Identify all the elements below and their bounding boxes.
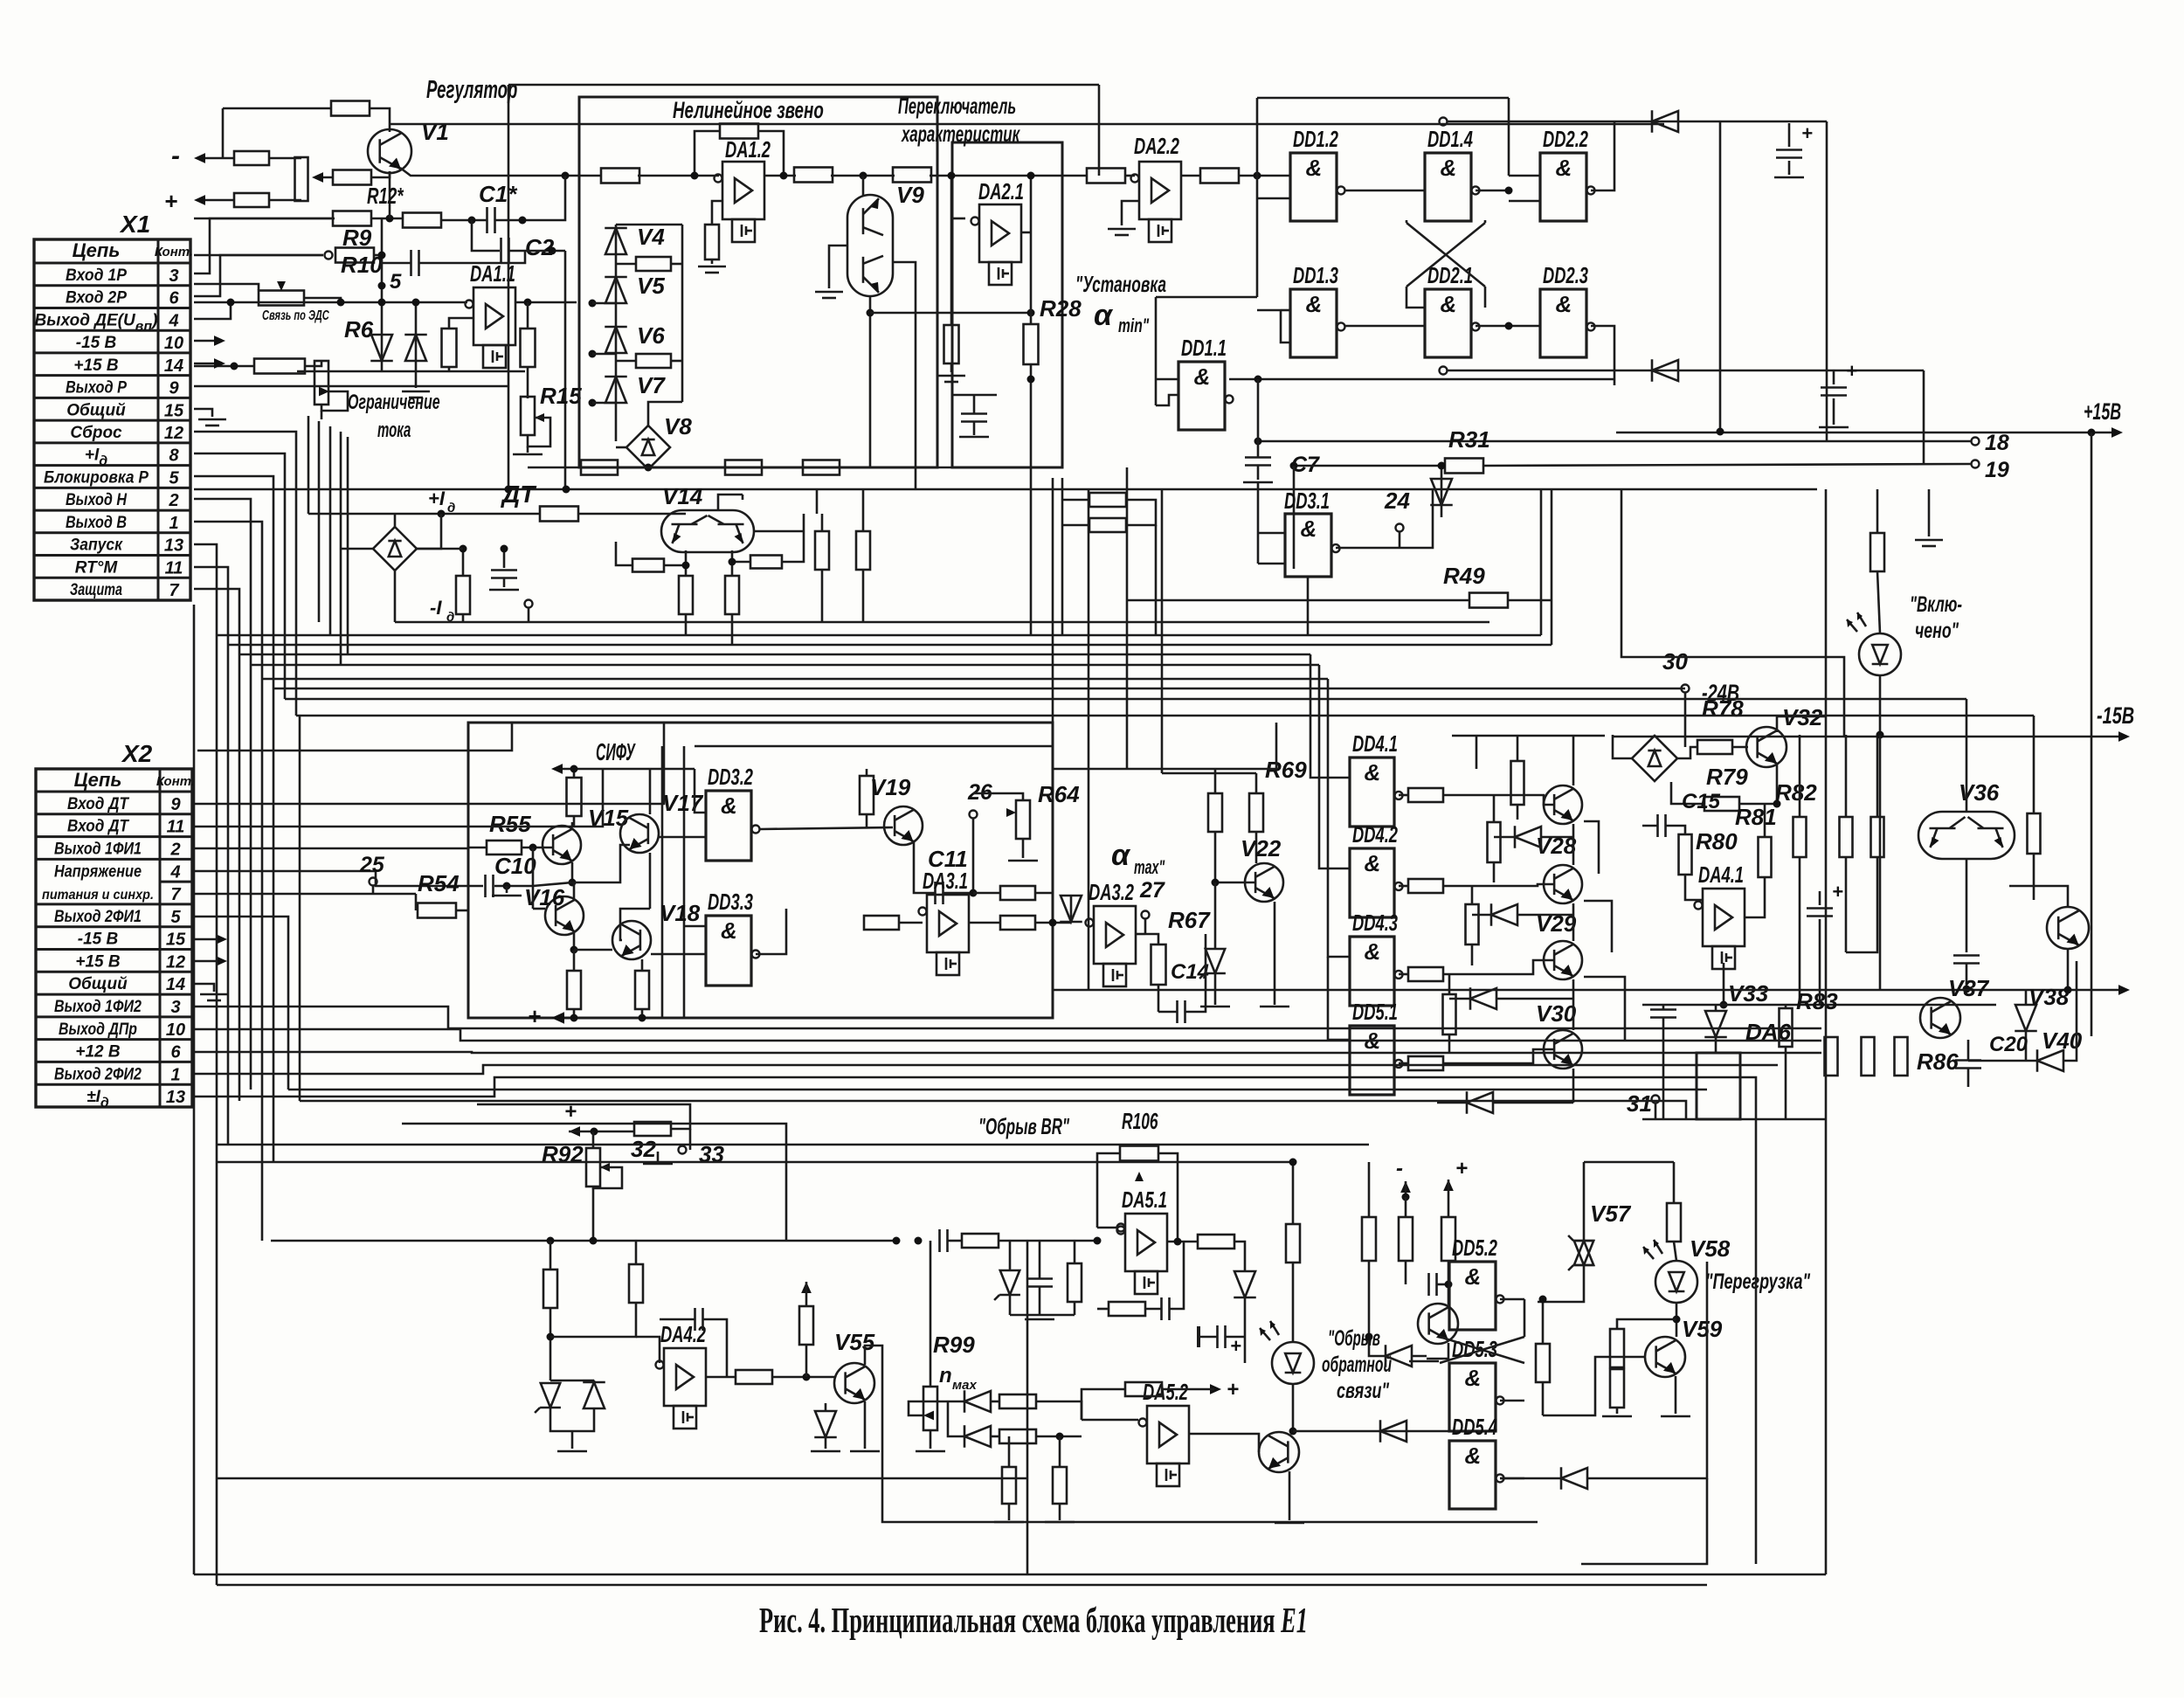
ground I10 [811,1450,840,1453]
capacitor DT [491,569,517,571]
wire g e2 [1584,901,1612,952]
wire mid to v17 [572,845,630,882]
svg-text:"Вклю-: "Вклю- [1910,592,1962,617]
arrow plus [194,195,205,205]
svg-text:5: 5 [170,908,181,927]
capacitor I21 [938,1229,941,1252]
wire v15 c [571,822,574,827]
wire vb5 [347,437,349,654]
wire i43b [1586,1262,1707,1478]
pin 19 [1972,460,1980,468]
arrow R6w [319,387,329,397]
resistor I2 [543,1270,557,1308]
svg-text:V5: V5 [637,273,665,299]
node C1 left [468,217,476,225]
diode V38 [2015,1005,2036,1031]
node y1420a [547,1237,555,1245]
wire v14 leg1b [685,614,688,635]
resistor I1 [634,1122,671,1136]
svg-text:Выход 1ФИ2: Выход 1ФИ2 [54,998,142,1016]
wire x1969 [1719,121,1722,432]
op-amp DA1.2 [722,162,764,219]
capacitor pol TR1 [1776,149,1802,151]
wire i5 [593,1380,596,1382]
arrow Ip [1443,1180,1454,1191]
resistor I14 [999,1429,1036,1443]
wire 30 stub [1684,693,1687,747]
wire dd13 in [1281,309,1290,312]
svg-text:&: & [1556,291,1572,317]
wire x1176 [1026,1241,1029,1574]
wire v55 c [865,1346,1538,1522]
wire gd2b [1517,914,1573,917]
svg-text:Х2: Х2 [121,740,153,767]
resistor G5 [1511,761,1524,805]
resistor DA11 in [442,329,457,367]
wire gd1b [1540,836,1573,839]
wire i29 [1292,1263,1295,1342]
gate DD4.3 [1350,937,1394,1006]
node C1 right [519,217,527,225]
svg-text:8: 8 [169,446,179,466]
wire dd12 out [1345,190,1425,192]
diode I20 [1234,1271,1255,1297]
wire chain v [615,225,618,441]
wire r69 up [1255,773,1258,793]
transistor V55 [834,1363,874,1403]
node i22 [1094,1237,1102,1245]
wire v18 down [641,959,644,971]
wire left border [193,605,196,1574]
resistor R78 [1697,740,1732,754]
wire dd32 out [760,827,893,829]
resistor DE [254,359,305,374]
node r31l [1290,462,1298,470]
wire bus800 dn [1966,699,1968,812]
wire r82 t [1799,735,1801,817]
node x1969 [1717,428,1724,436]
wire fb v [527,302,529,329]
resistor I25 [1068,1263,1082,1302]
wire vert feed [222,108,225,158]
svg-text:+: + [1227,1378,1239,1401]
wire c14 r [1185,934,1206,1012]
ground H gnd [1915,539,1943,542]
resistor I30 [1286,1224,1300,1263]
resistor I41 [1610,1329,1624,1367]
svg-text:V58: V58 [1690,1235,1731,1262]
wire c20 [1967,1040,1970,1060]
svg-text:V30: V30 [1536,1000,1577,1027]
ground R15 [513,453,543,456]
capacitor I6 [694,1308,696,1331]
arrow -15V [2118,731,2130,742]
node v39b [2064,986,2072,994]
wire r49 lineb [1508,599,1552,602]
wire dd11 loop top [1156,296,1257,299]
wire x2 p4 [194,871,468,886]
wire cross a [1406,223,1485,287]
node rail647 [562,172,570,180]
svg-text:Рис. 4. Принципиальная схема б: Рис. 4. Принципиальная схема блока управ… [759,1600,1308,1640]
arrow R64 [1006,808,1016,817]
wire r67 t [1145,934,1158,944]
wire 27 stub [1144,919,1147,934]
wire cross5c [1440,1337,1524,1363]
wire x2202 [1923,370,1925,464]
wire r69 dn [1255,832,1258,863]
wire R6 wiper [321,391,348,411]
wire gd4b [1492,1102,1573,1104]
resistor I3 [629,1264,643,1303]
arrow minus [194,153,205,163]
wire g6 [1493,795,1496,822]
wire br left [616,446,626,449]
resistor F4 [860,776,874,814]
resistor H5 [2028,813,2041,854]
ground I37 [1409,1360,1439,1363]
zener I23 [1000,1270,1019,1295]
diode GD4 [1467,1092,1493,1113]
wire i14 gnd1 [1059,1436,1061,1468]
node i21a [893,1237,901,1245]
wire z21 [1214,882,1217,948]
transistor V32 [1746,727,1787,767]
resistor DA12 fb [720,124,758,139]
pin 33 [679,1146,687,1154]
node i29 [1289,1428,1297,1436]
node led dn [1876,731,1884,739]
svg-text:R99: R99 [933,1332,975,1358]
wire r-da11 [449,318,473,329]
wire i38 [1369,1337,1386,1356]
svg-text:V7: V7 [637,372,666,398]
wire chr2b [671,360,682,363]
resistor I33 [1362,1217,1376,1261]
wire da21 pin [951,218,965,220]
node y1330 [1289,1159,1297,1166]
wire i39b [1542,1382,1545,1415]
wire id res [462,549,465,576]
wire x2 p7 [194,893,416,896]
wire i43 [1500,1477,1562,1480]
node c10 [503,882,511,890]
wire r64 t [973,793,1023,800]
wire v16 c [573,882,576,898]
resistor C inner [944,325,959,363]
wire x1 r6 [194,255,323,296]
wire DE out row [194,365,253,368]
wire v18 b [620,909,650,940]
capacitor C7 [1245,456,1271,459]
arrow p15 [2111,427,2123,438]
ground z21 [1200,1006,1230,1008]
transistor V15 [543,826,581,864]
wire da32 out [1136,933,1145,936]
svg-text:Защита: Защита [70,581,122,599]
arrow wiper [312,172,323,183]
resistor DA11 fb [521,329,536,367]
svg-text:30: 30 [1662,648,1688,675]
wire i13 [948,1401,965,1436]
wire gd2 [1472,914,1492,917]
gate DD1.1 [1178,362,1225,430]
wire capb dn [973,422,976,435]
node da51o [1174,1238,1182,1246]
gate DD1.3 [1290,289,1337,357]
wire bus777 dn [1328,679,1350,957]
resistor G8 [1443,994,1456,1034]
svg-text:&: & [1306,155,1323,181]
ground C10 [492,895,522,897]
transistor V18 [612,921,651,959]
wire h5b [2033,854,2035,900]
wire fb left [695,131,720,176]
wire i35b [1448,1261,1450,1284]
resistor H4 [1871,817,1884,857]
wire gd3 [1449,998,1471,1000]
wire i34 [1405,1197,1407,1217]
node i21b [915,1237,923,1245]
wire cap stub [503,549,506,568]
resistor rail B [601,169,639,183]
wire main rail 201 [400,168,602,176]
svg-text:7: 7 [169,581,179,600]
ground I45 [557,1450,587,1453]
svg-text:Связь по ЭДС: Связь по ЭДС [262,308,329,323]
wire main rail 201b [638,175,719,177]
wire cross a3 [1406,287,1425,308]
svg-text:18: 18 [1985,431,2009,455]
resistor B out2 [893,168,931,183]
wire f2b [573,1009,576,1018]
svg-text:Выход В: Выход В [66,514,127,532]
wire x1246 ext [1088,489,1090,989]
wire v39b [2067,949,2070,990]
svg-text:+: + [528,1003,541,1029]
wire i18 [1008,1436,1011,1467]
svg-text:R6: R6 [344,316,374,342]
svg-text:DD1.2: DD1.2 [1293,126,1338,152]
wire h4b [1846,857,1877,952]
wire i14b [1036,1436,1082,1438]
node v14d [729,558,736,566]
svg-text:"Установка: "Установка [1075,271,1166,297]
wire box31 [1581,1478,1707,1564]
svg-text:DD5.2: DD5.2 [1452,1235,1497,1261]
node r79 [1773,800,1781,808]
svg-text:12: 12 [166,952,185,972]
svg-text:DA3.2: DA3.2 [1089,879,1134,905]
arrow pot2 [277,281,286,291]
wire hv [1928,489,1931,520]
ground I28 [1197,1326,1200,1347]
svg-text:Ограничение: Ограничение [348,391,440,414]
svg-text:14: 14 [164,356,183,376]
wire da21 feed [950,176,953,218]
svg-text:13: 13 [164,536,183,556]
svg-text:R55: R55 [489,811,531,837]
wire x1 gnd [194,409,212,417]
wire v32 line [1677,747,1697,758]
node im [1402,1193,1410,1201]
svg-text:&: & [1465,1365,1482,1391]
svg-text:V37: V37 [1948,975,1990,1001]
diode V40 [2037,1050,2063,1071]
svg-text:DA2.1: DA2.1 [978,178,1024,204]
wire h1b [1819,919,1821,1005]
gate DD3.3 [706,916,751,986]
wire Bi up [712,201,722,225]
resistor R86 [1895,1037,1908,1076]
capacitor C10 [484,875,487,897]
diode I5 [584,1382,605,1408]
resistor R83 [1780,1008,1793,1047]
wire brh top [1654,735,1656,736]
svg-text:V55: V55 [834,1329,875,1355]
gate DD2.1 [1425,289,1471,357]
wire v22 b [1215,882,1254,884]
node dd14o [1505,187,1513,195]
wire c15b [1666,826,1685,835]
wire 25 tick [372,886,375,894]
wire dd13 feed [1257,309,1281,312]
wire br top [648,402,682,425]
wire id res b [462,614,465,622]
wire x2 p9 [194,723,664,804]
wire bus y819 [296,715,2034,717]
resistor R79 [1704,797,1739,811]
wire 18 line [1258,440,1971,443]
node fb31 [970,889,978,897]
wire r79 l [1671,782,1704,804]
wire g box l [1476,736,1478,769]
arrow I1 [569,1126,580,1137]
wire g v5 [1572,1069,1575,1103]
wire vb3 [329,426,332,635]
svg-text:9: 9 [169,379,179,398]
transistor V59 [1645,1337,1685,1377]
wire predd31d [1155,525,1158,635]
transistor V31 [1544,1030,1582,1069]
zener V57a [1574,1241,1593,1265]
wire y885 feed [1162,772,1256,775]
wire i14 [990,1436,999,1438]
wire i28b [1226,1336,1245,1339]
wire top loop [1257,97,1509,100]
wire plusid drop [417,514,441,549]
wire x2 m15 [194,938,218,941]
wire x1216 ext [1061,478,1064,635]
pin loop bot [1440,367,1448,375]
capacitor C1* [486,207,488,233]
wire i39 [1542,1299,1545,1344]
svg-text:V1: V1 [421,119,449,145]
wire i1c [689,1129,692,1150]
capacitor H2 [1650,1008,1676,1011]
svg-text:5: 5 [169,468,179,488]
svg-text:V14: V14 [662,483,703,509]
capacitor I28 [1216,1325,1219,1348]
wire dd33 inv [683,926,686,1018]
wire top feed [223,107,332,110]
wire da31 in [899,922,923,924]
node ch s1 [589,300,597,308]
wire gd4 [1437,1102,1468,1104]
wire bus y761 [251,664,1319,667]
wire capb l [951,394,997,397]
op-amp DA2.2 [1139,162,1181,219]
wire fb b [527,367,529,398]
svg-text:-: - [1396,1157,1403,1180]
wire g5b [1517,805,1519,820]
wire dd22 in2 [1509,200,1540,203]
box DA6 [1697,1053,1740,1119]
wire C1-right [495,176,565,220]
wire dd31 out [1336,489,1433,548]
wire v14 leg2b [731,614,734,645]
resistor H9 [1862,1037,1875,1076]
wire dd33 in1 [684,925,706,928]
wire y1692 [217,1477,1027,1480]
resistor V14a [679,576,693,614]
arrow x1b [214,358,225,369]
arrow Im [1400,1181,1411,1193]
wire i36 [1437,1283,1449,1286]
transistor V30 [1544,941,1582,979]
resistor I19 [1198,1235,1234,1249]
node f6r [1049,919,1057,927]
resistor R55 [487,841,522,854]
wire y1286 [402,1124,786,1241]
wire 26 stub [972,819,975,845]
wire x2394v [2091,432,2093,1036]
arrow R15w [535,413,544,422]
arrow R99 [923,1411,934,1421]
resistor V14c [632,559,664,572]
wire dd11 in1 [1156,378,1178,381]
dual transistor V36 [1918,812,2015,859]
wire bus777 dn2 [1328,957,1350,1040]
svg-text:min": min" [1118,315,1150,336]
svg-text:Сброс: Сброс [70,424,122,442]
wire chr1b [671,263,682,266]
wire row 346 [194,301,467,304]
wire i17 [1059,1504,1061,1520]
svg-text:Конт.: Конт. [156,774,195,789]
wire cross b2 [1484,220,1487,223]
wire h1t [1819,891,1821,905]
resistor left lower [234,193,269,207]
wire vb1 [308,416,310,514]
wire da52 fb [1082,1389,1125,1420]
wire v17 down [649,853,652,909]
transistor V1 [368,129,411,173]
node dd21o [1505,322,1513,330]
wire rail647 down [564,251,567,489]
wire plus out [197,199,234,202]
wire dd11 out [1229,378,1614,381]
wire g4b [1443,1049,1554,1063]
capacitor C15 [1656,814,1659,837]
wire i30 [1292,1162,1295,1224]
wire bus y800 [285,698,1966,701]
wire v39 [2009,886,2068,907]
arrow plusl [551,1012,564,1024]
potentiometer R92 [586,1148,600,1187]
svg-text:14: 14 [166,975,185,994]
wire v57 [1583,1162,1586,1241]
